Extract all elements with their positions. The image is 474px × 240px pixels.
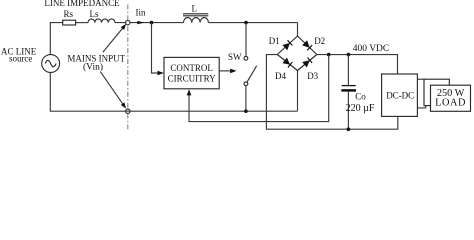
svg-text:SW: SW xyxy=(228,52,242,62)
gate drive arrow to SW xyxy=(219,70,230,72)
bridge edge top-left xyxy=(277,36,297,55)
diode D2 xyxy=(302,40,310,48)
wire left bottom vertical xyxy=(50,72,297,111)
svg-text:Ls: Ls xyxy=(90,9,99,19)
svg-text:LOAD: LOAD xyxy=(435,97,466,108)
dc-dc converter box xyxy=(382,74,418,116)
arrow to bottom Vin node xyxy=(101,72,124,105)
node Vin bottom (open circle) xyxy=(126,109,130,113)
svg-text:D2: D2 xyxy=(314,36,325,46)
load front box 250 W LOAD xyxy=(431,85,471,111)
resistor Rs xyxy=(63,20,76,25)
inductor L xyxy=(184,18,209,23)
svg-text:L: L xyxy=(192,4,198,14)
svg-text:Rs: Rs xyxy=(63,9,73,19)
svg-text:(Vin): (Vin) xyxy=(83,61,103,72)
switch SW bottom contact xyxy=(244,82,248,86)
inductor L core bars xyxy=(183,14,208,16)
switch SW blade xyxy=(247,66,256,82)
bridge edge bottom-left xyxy=(277,55,297,71)
wire dc-dc to load top xyxy=(417,78,424,80)
switch SW upper stub xyxy=(245,23,247,57)
control circuitry box U1 xyxy=(164,57,219,88)
svg-text:source: source xyxy=(9,54,33,64)
arrowhead into control box bottom xyxy=(187,89,192,95)
wire top left vertical xyxy=(50,23,62,55)
ac source sine xyxy=(45,60,56,66)
capacitor Co top plate xyxy=(342,85,356,87)
wire Ls to L xyxy=(115,22,184,24)
wire L to bridge xyxy=(208,22,297,24)
capacitor Co bottom plate xyxy=(341,89,356,92)
switch SW lower stub xyxy=(245,86,247,111)
diode D1 xyxy=(282,43,290,50)
diode D3 xyxy=(302,60,310,67)
junction dot switch bottom xyxy=(244,109,248,113)
svg-text:CONTROL: CONTROL xyxy=(170,63,213,73)
wire bridge top stub xyxy=(297,23,299,36)
svg-text:D3: D3 xyxy=(307,71,318,81)
junction dot feedback tap xyxy=(327,53,331,57)
wire Rs to Ls xyxy=(76,22,89,24)
wire dc-dc to load bottom xyxy=(417,106,425,108)
feedback sense wire xyxy=(189,55,329,122)
current arrow Iin xyxy=(137,21,144,24)
bridge edge bottom-right xyxy=(298,55,317,71)
boundary dash-dot line xyxy=(127,5,129,132)
bridge edge top-right xyxy=(298,36,317,55)
ac source V1 xyxy=(42,55,60,73)
arrowhead into control box left xyxy=(158,71,164,76)
svg-text:D4: D4 xyxy=(275,71,286,81)
inductor Ls xyxy=(88,19,115,23)
svg-text:DC-DC: DC-DC xyxy=(386,90,414,100)
wire bridge bottom stub xyxy=(297,71,299,112)
arrow to top Vin node xyxy=(103,28,123,53)
load back box xyxy=(424,79,449,105)
junction dot cap top xyxy=(347,53,351,57)
svg-text:D1: D1 xyxy=(269,36,280,46)
wire bridge left vertex to dc minus xyxy=(266,55,397,130)
svg-text:CIRCUITRY: CIRCUITRY xyxy=(168,73,217,83)
switch SW top contact xyxy=(244,56,248,60)
junction dot switch top xyxy=(244,21,248,25)
node Vin top (open circle) xyxy=(126,20,130,24)
wire input sense to control box xyxy=(152,23,158,73)
svg-text:400 VDC: 400 VDC xyxy=(353,44,390,54)
svg-text:Iin: Iin xyxy=(136,8,146,18)
svg-text:Co: Co xyxy=(355,92,366,102)
junction dot input sense tap xyxy=(150,21,154,25)
svg-text:220 µF: 220 µF xyxy=(346,103,375,114)
svg-text:LINE IMPEDANCE: LINE IMPEDANCE xyxy=(44,0,120,8)
junction dot cap bottom xyxy=(347,127,351,131)
capacitor Co wires xyxy=(347,55,349,130)
diode D4 xyxy=(282,58,290,65)
dc plus bus xyxy=(317,55,398,74)
